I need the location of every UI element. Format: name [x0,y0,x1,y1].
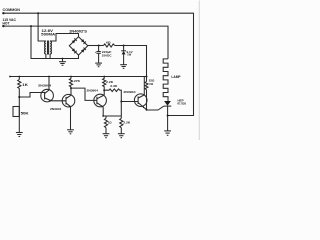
svg-text:2.2K: 2.2K [123,120,131,124]
svg-text:R1723B: R1723B [178,102,187,106]
svg-text:HOT: HOT [3,21,11,25]
svg-text:+: + [95,50,97,54]
svg-text:1N4002'S: 1N4002'S [69,30,88,34]
svg-text:27K: 27K [74,79,81,83]
svg-text:1W: 1W [149,82,153,86]
svg-text:500MA: 500MA [41,32,56,36]
svg-text:1W: 1W [127,52,131,56]
svg-text:LAMP: LAMP [171,75,181,79]
svg-text:3.3K: 3.3K [110,84,118,88]
svg-text:25VDC: 25VDC [102,53,112,57]
svg-text:2N3904: 2N3904 [50,107,62,111]
svg-text:2N3904: 2N3904 [38,83,51,87]
svg-text:50K: 50K [21,112,30,116]
svg-text:COMMON: COMMON [3,8,21,12]
svg-text:6Ω: 6Ω [106,40,111,44]
svg-text:2N3904: 2N3904 [87,88,99,92]
svg-text:2N3904: 2N3904 [124,90,136,94]
svg-text:1K: 1K [22,83,29,87]
svg-text:1Ω: 1Ω [108,120,112,124]
